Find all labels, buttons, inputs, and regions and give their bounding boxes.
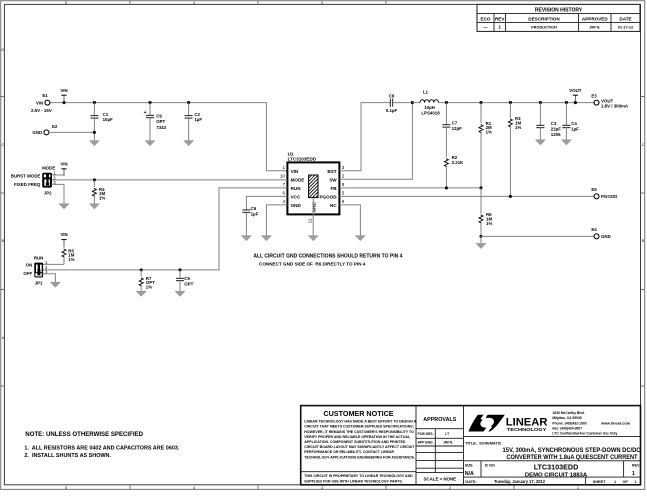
junction — [148, 101, 151, 104]
svg-text:1.8V / 300mA: 1.8V / 300mA — [601, 104, 629, 109]
wire FB pin8 — [339, 187, 481, 189]
svg-text:GND: GND — [601, 234, 611, 239]
wire RUN net JP1 pin2 to U1 pin7 — [43, 188, 288, 270]
svg-text:JP1: JP1 — [35, 280, 43, 285]
svg-text:22µF: 22µF — [551, 127, 561, 132]
svg-text:0.1µF: 0.1µF — [386, 108, 398, 113]
svg-text:JIM N.: JIM N. — [443, 441, 453, 445]
junction — [509, 195, 512, 198]
svg-text:OF: OF — [623, 480, 629, 484]
svg-text:BST: BST — [327, 169, 336, 174]
svg-text:1630 McCarthy Blvd.: 1630 McCarthy Blvd. — [552, 411, 585, 415]
svg-text:3: 3 — [321, 486, 323, 490]
jumper JP2 — [11, 165, 56, 195]
junction — [574, 101, 577, 104]
wire pad to ground — [312, 198, 314, 235]
svg-text:HOWEVER, IT REMAINS THE CUSTOM: HOWEVER, IT REMAINS THE CUSTOMER'S RESPO… — [304, 430, 414, 434]
terminal E1 — [31, 93, 52, 113]
svg-text:C: C — [1, 143, 4, 147]
svg-text:IC NO.: IC NO. — [485, 463, 496, 467]
terminal E5 PGOOD — [591, 187, 617, 199]
svg-text:C2: C2 — [194, 112, 200, 117]
junction — [539, 101, 542, 104]
svg-text:APPROVALS: APPROVALS — [423, 417, 457, 423]
svg-text:E5: E5 — [591, 187, 597, 192]
linear technology logo — [468, 411, 630, 436]
capacitor C8 — [386, 94, 413, 113]
svg-text:1: 1 — [632, 471, 635, 477]
svg-text:1µF: 1µF — [571, 127, 579, 132]
svg-text:VIN: VIN — [36, 100, 43, 105]
capacitor C5 — [176, 270, 194, 291]
svg-text:8: 8 — [342, 182, 345, 187]
svg-text:PRODUCTION: PRODUCTION — [531, 26, 557, 30]
capacitor C2 — [185, 103, 203, 141]
svg-text:VIN: VIN — [60, 161, 67, 166]
resistor R1 — [479, 103, 492, 188]
inductor L1 — [412, 90, 446, 116]
svg-text:LTC3103EDD: LTC3103EDD — [288, 157, 317, 162]
wire R5 to JP1 pin1 — [43, 263, 64, 265]
junction — [479, 186, 482, 189]
svg-text:VIN: VIN — [60, 232, 67, 237]
IC U1 LTC3103EDD — [280, 151, 345, 214]
svg-text:2.5V - 15V: 2.5V - 15V — [31, 108, 52, 113]
wire GND pin4 — [266, 205, 287, 236]
svg-text:SCALE = NONE: SCALE = NONE — [424, 477, 457, 482]
svg-text:TITLE: SCHEMATIC: TITLE: SCHEMATIC — [465, 441, 501, 445]
svg-text:VERIFY PROPER AND RELIABLE OPE: VERIFY PROPER AND RELIABLE OPERATION IN … — [304, 435, 411, 439]
junction — [509, 101, 512, 104]
svg-text:NC: NC — [330, 203, 337, 208]
svg-text:Phone: (408)432-1900: Phone: (408)432-1900 — [552, 422, 586, 426]
approvals — [416, 417, 464, 482]
customer notice — [301, 409, 417, 483]
capacitor C4 — [562, 103, 579, 140]
junction — [479, 235, 482, 238]
svg-text:MODE: MODE — [291, 178, 305, 183]
svg-text:CUSTOMER NOTICE: CUSTOMER NOTICE — [323, 409, 393, 418]
resistor R2 — [444, 155, 464, 188]
svg-text:1%: 1% — [99, 196, 105, 201]
svg-text:10µH: 10µH — [424, 105, 435, 110]
ground (C5) — [175, 291, 185, 296]
wire R6 to E4 — [481, 235, 594, 237]
svg-text:E2: E2 — [52, 124, 58, 129]
svg-text:2. INSTALL SHUNTS AS SHOWN.: 2. INSTALL SHUNTS AS SHOWN. — [24, 453, 111, 459]
svg-text:7: 7 — [282, 182, 285, 187]
wire SW pin2 — [339, 103, 412, 180]
svg-text:3: 3 — [342, 165, 345, 170]
svg-text:FB: FB — [330, 186, 337, 191]
power tap VIN (input) — [60, 88, 67, 103]
svg-text:VCC: VCC — [291, 195, 301, 200]
svg-text:GND: GND — [311, 202, 316, 213]
svg-text:SUPPLIED FOR USE WITH LINEAR T: SUPPLIED FOR USE WITH LINEAR TECHNOLOGY … — [304, 479, 402, 483]
svg-text:SHEET: SHEET — [593, 480, 606, 484]
svg-text:C5: C5 — [184, 276, 190, 281]
svg-text:10µF: 10µF — [103, 117, 113, 122]
resistor R4 — [92, 180, 105, 204]
wire JP2 pin3 to ground — [51, 184, 64, 203]
svg-text:7343: 7343 — [156, 125, 166, 130]
wire MODE net JP2 pin2 to U1 pin10 — [51, 179, 287, 181]
ground (C6) — [241, 236, 251, 241]
ground (C3) — [535, 140, 545, 145]
jumper JP1 — [23, 255, 48, 285]
svg-text:TECHNOLOGY APPLICATIONS ENGINE: TECHNOLOGY APPLICATIONS ENGINEERING FOR … — [304, 455, 415, 459]
svg-text:LPS4018: LPS4018 — [421, 110, 440, 115]
junction — [93, 101, 96, 104]
revision history table — [477, 4, 640, 31]
svg-text:C6: C6 — [251, 206, 257, 211]
svg-text:2: 2 — [449, 486, 451, 490]
svg-text:1%: 1% — [515, 125, 521, 130]
svg-text:4: 4 — [193, 486, 195, 490]
svg-text:CONVERTER WITH 1.8uA QUIESCENT: CONVERTER WITH 1.8uA QUIESCENT CURRENT — [507, 454, 638, 461]
capacitor C6 — [242, 206, 258, 236]
resistor R7 — [139, 270, 155, 291]
svg-text:JIM N.: JIM N. — [589, 26, 600, 30]
svg-text:C1: C1 — [103, 112, 109, 117]
svg-text:1: 1 — [282, 165, 285, 170]
svg-text:BURST MODE: BURST MODE — [11, 174, 41, 179]
svg-text:THIS CIRCUIT IS PROPRIETARY TO: THIS CIRCUIT IS PROPRIETARY TO LINEAR TE… — [304, 474, 413, 478]
svg-text:11: 11 — [308, 218, 313, 223]
junction — [411, 101, 414, 104]
svg-text:C4: C4 — [571, 121, 577, 126]
capacitor C9 (polarized) — [144, 103, 167, 141]
svg-text:2: 2 — [342, 174, 345, 179]
wire PGOOD pin5 — [339, 195, 594, 197]
svg-text:NOTE: UNLESS OTHERWISE SPECIFI: NOTE: UNLESS OTHERWISE SPECIFIED — [25, 431, 143, 438]
svg-text:OPT: OPT — [156, 119, 165, 124]
svg-text:N/A: N/A — [465, 471, 474, 477]
ground (pin4) — [261, 236, 271, 241]
svg-text:VIN: VIN — [60, 88, 67, 93]
ground (C4) — [561, 140, 571, 145]
svg-text:1%: 1% — [146, 285, 152, 290]
svg-text:OPT: OPT — [184, 281, 193, 286]
svg-text:C8: C8 — [389, 94, 395, 99]
svg-text:REV: REV — [495, 17, 505, 22]
svg-text:L1: L1 — [423, 90, 429, 95]
ground (JP1) — [50, 282, 60, 287]
svg-text:PGOOD: PGOOD — [319, 195, 337, 200]
power tap VOUT — [569, 88, 582, 103]
svg-text:15V, 300mA, SYNCHRONOUS STEP-D: 15V, 300mA, SYNCHRONOUS STEP-DOWN DC/DC — [503, 447, 642, 454]
capacitor C1 — [90, 103, 113, 141]
svg-text:OFF: OFF — [23, 271, 32, 276]
svg-text:4: 4 — [193, 1, 195, 5]
junction — [187, 101, 190, 104]
junction — [445, 101, 448, 104]
wire VCC pin6 — [246, 196, 287, 210]
svg-text:10: 10 — [280, 174, 286, 179]
ground (C1) — [89, 141, 99, 146]
svg-text:1%: 1% — [68, 257, 74, 262]
title rows — [464, 437, 642, 485]
svg-text:C: C — [642, 143, 645, 147]
svg-text:E3: E3 — [591, 93, 597, 98]
svg-text:1: 1 — [614, 480, 616, 484]
ground (R4) — [89, 204, 99, 209]
wire VIN rail — [50, 103, 288, 171]
svg-text:1µF: 1µF — [194, 117, 202, 122]
svg-text:1µF: 1µF — [251, 212, 259, 217]
ground (pad) — [308, 236, 318, 241]
wire NC pin9 — [339, 205, 360, 236]
svg-text:D: D — [1, 48, 4, 52]
capacitor C7 — [442, 103, 462, 158]
svg-text:PERFORMANCE OR RELIABILITY.: PERFORMANCE OR RELIABILITY. CONTACT LINE… — [304, 450, 394, 454]
wire VOUT rail — [446, 102, 594, 104]
svg-text:ON: ON — [26, 262, 33, 267]
svg-text:1206: 1206 — [551, 132, 561, 137]
svg-text:Fax: (408)434-0507: Fax: (408)434-0507 — [552, 427, 582, 431]
svg-text:DATE: DATE — [619, 17, 631, 22]
title block — [301, 406, 641, 485]
svg-text:www.linear.com: www.linear.com — [600, 421, 631, 426]
svg-text:APPROVED: APPROVED — [582, 17, 608, 22]
svg-text:PCB DES.: PCB DES. — [418, 432, 434, 436]
svg-text:C3: C3 — [551, 121, 557, 126]
junction — [62, 101, 65, 104]
junction — [565, 101, 568, 104]
svg-text:3: 3 — [321, 1, 323, 5]
junction — [479, 101, 482, 104]
svg-text:APP ENG.: APP ENG. — [418, 441, 434, 445]
capacitor C3 — [536, 103, 561, 140]
resistor R5 — [62, 246, 75, 264]
svg-text:Milpitas, CA 95035: Milpitas, CA 95035 — [552, 416, 581, 420]
svg-text:9: 9 — [342, 199, 345, 204]
svg-text:5: 5 — [342, 191, 345, 196]
ground (R6) — [476, 243, 486, 248]
svg-text:REV.: REV. — [632, 463, 640, 467]
svg-text:U1: U1 — [288, 151, 294, 156]
junction — [93, 178, 96, 181]
svg-text:1. ALL RESISTORS ARE 0402 AND: 1. ALL RESISTORS ARE 0402 AND CAPACITORS… — [24, 446, 179, 452]
svg-text:1: 1 — [577, 486, 579, 490]
svg-text:LTC3103EDD: LTC3103EDD — [534, 462, 579, 471]
svg-text:1%: 1% — [486, 130, 492, 135]
svg-text:01-17-12: 01-17-12 — [618, 26, 633, 30]
wire JP2 pin1 to VIN tap — [51, 169, 64, 175]
svg-text:REVISION HISTORY: REVISION HISTORY — [535, 8, 583, 14]
svg-text:R2: R2 — [452, 155, 458, 160]
svg-text:LTC Confidential-For Customer: LTC Confidential-For Customer Use Only — [552, 432, 617, 436]
power tap VIN (JP2) — [60, 161, 67, 176]
junction — [140, 268, 143, 271]
svg-text:JP2: JP2 — [44, 190, 52, 195]
svg-text:6: 6 — [282, 191, 285, 196]
U1 exposed pad pin 11 — [308, 175, 318, 223]
svg-text:VOUT: VOUT — [569, 88, 582, 93]
wire BST pin3 to C8 — [339, 103, 390, 171]
resistor R3 — [508, 103, 521, 197]
svg-text:E4: E4 — [591, 227, 597, 232]
svg-text:TECHNOLOGY: TECHNOLOGY — [507, 427, 547, 432]
svg-text:SIZE: SIZE — [465, 463, 474, 467]
svg-text:RUN: RUN — [34, 255, 44, 260]
svg-text:CIRCUIT THAT MEETS CUSTOMER-SU: CIRCUIT THAT MEETS CUSTOMER-SUPPLIED SPE… — [304, 425, 414, 429]
svg-text:APPLICATION. COMPONENT SUBSTI: APPLICATION. COMPONENT SUBSTITUTION AND … — [304, 440, 406, 444]
svg-text:RUN: RUN — [291, 186, 302, 191]
ground (JP2) — [59, 204, 69, 209]
svg-text:SW: SW — [329, 178, 337, 183]
wire R6 gnd stem — [480, 236, 482, 243]
ground (C9) — [145, 141, 155, 146]
power tap VIN (R5) — [60, 232, 67, 247]
svg-text:E1: E1 — [42, 93, 48, 98]
svg-text:GND: GND — [32, 130, 42, 135]
svg-text:12pF: 12pF — [452, 126, 463, 131]
junction — [445, 186, 448, 189]
svg-text:4: 4 — [282, 199, 285, 204]
svg-text:C7: C7 — [452, 121, 458, 126]
terminal E4 GND — [591, 227, 610, 239]
wire E2 to C1 — [49, 131, 95, 133]
ground (R7) — [136, 291, 146, 296]
svg-text:—: — — [483, 25, 488, 30]
svg-text:+: + — [144, 110, 147, 116]
ground (NC) — [355, 236, 365, 241]
svg-text:PGOOD: PGOOD — [601, 194, 617, 199]
svg-text:ALL CIRCUIT GND CONNECTIONS SH: ALL CIRCUIT GND CONNECTIONS SHOULD RETUR… — [253, 253, 402, 259]
svg-text:ECO: ECO — [481, 17, 491, 22]
svg-text:DESCRIPTION: DESCRIPTION — [528, 17, 560, 22]
svg-text:Tuesday, January 17, 2012: Tuesday, January 17, 2012 — [494, 479, 546, 484]
svg-text:DATE:: DATE: — [465, 480, 476, 484]
svg-text:2.21K: 2.21K — [452, 160, 465, 165]
svg-text:GND: GND — [291, 203, 302, 208]
svg-text:C9: C9 — [156, 113, 162, 118]
svg-text:1%: 1% — [486, 221, 492, 226]
svg-text:CONNECT GND SIDE OF R6 DIRECT: CONNECT GND SIDE OF R6 DIRECTLY TO PIN 4 — [259, 261, 366, 266]
notes text block — [24, 431, 179, 459]
svg-text:LINEAR TECHNOLOGY HAS MADE A B: LINEAR TECHNOLOGY HAS MADE A BEST EFFORT… — [304, 420, 416, 424]
svg-text:5: 5 — [65, 1, 67, 5]
svg-text:FIXED FREQ: FIXED FREQ — [14, 182, 41, 187]
resistor R6 — [479, 188, 492, 237]
ground (C2) — [184, 141, 194, 146]
svg-text:VIN: VIN — [291, 169, 299, 174]
junction — [178, 268, 181, 271]
junction — [93, 131, 96, 134]
terminal E2 — [32, 124, 57, 135]
svg-text:CIRCUIT BOARD LAYOUT MAY SIGNI: CIRCUIT BOARD LAYOUT MAY SIGNIFICANTLY A… — [304, 445, 415, 449]
wire JP1 pin3 to ground — [43, 274, 56, 282]
terminal E3 VOUT — [591, 93, 629, 108]
svg-text:5: 5 — [65, 486, 67, 490]
svg-text:1: 1 — [635, 480, 637, 484]
